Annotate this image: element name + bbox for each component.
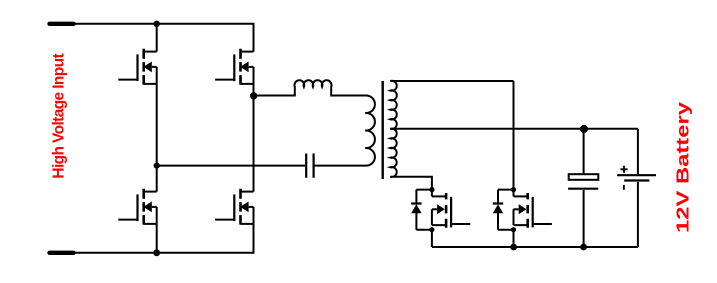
transformer T1 core [382, 81, 384, 179]
transformer T1 secondary upper winding [390, 81, 513, 129]
wire phase A to series capacitor [157, 165, 306, 167]
junction negative rail / C2 [580, 244, 587, 251]
svg-text:12V Battery: 12V Battery [674, 102, 693, 233]
transistor Q1 (upper-left) [118, 49, 156, 85]
junction phase A node [154, 163, 160, 169]
transistor Q2 (upper-right) [215, 49, 253, 85]
junction phase B node [250, 92, 257, 99]
junction bottom rail / Q3 source [153, 249, 160, 256]
capacitor C1 (series blocking) [306, 154, 313, 178]
wire D2 bottom to Q6 source [498, 230, 514, 247]
wire D2 top to Q6 drain [498, 190, 514, 197]
input terminal bottom [50, 251, 74, 255]
wire D1 top to Q5 drain [416, 190, 432, 197]
wire secondary top to Q6 drain [513, 81, 515, 190]
inductor L1 [254, 80, 366, 95]
junction Q6 drain / D2 [511, 187, 516, 192]
transformer T1 primary winding [314, 95, 375, 165]
diode D2 (body diode Q6) [493, 190, 503, 230]
battery BT1 [617, 129, 656, 247]
junction negative rail / Q6 [510, 244, 517, 251]
wire left leg Q1 source to phase A [156, 84, 158, 166]
wire left leg drain Q1 [156, 24, 158, 52]
junction positive rail / C2 [580, 125, 588, 133]
junction Q5 source / D1 [429, 227, 434, 232]
wire left leg phase A to Q3 drain [156, 166, 158, 192]
wire top rail [74, 24, 254, 52]
wire D1 bottom to Q5 source [416, 230, 432, 247]
junction Q6 source / D2 [511, 227, 516, 232]
svg-text:High Voltage Input: High Voltage Input [50, 54, 67, 179]
wire left leg Q3 source to bottom rail [156, 224, 158, 253]
wire right leg phase B to Q4 drain [253, 96, 255, 192]
capacitor C2 (output electrolytic) [568, 129, 598, 247]
input terminal top [50, 22, 74, 26]
diode D1 (body diode Q5) [411, 190, 421, 230]
junction Q5 drain / D1 [429, 187, 434, 192]
wire right leg Q2 source to phase B [253, 84, 255, 96]
battery minus mark [623, 185, 625, 190]
transformer T1 secondary lower winding [390, 129, 432, 190]
wire output negative rail [432, 246, 638, 248]
transistor Q6 (sync rectifier right) [514, 193, 552, 228]
junction top rail / Q1 drain [154, 21, 160, 27]
battery plus mark [620, 166, 627, 173]
transistor Q5 (sync rectifier left) [432, 193, 470, 228]
transistor Q4 (lower-right) [215, 189, 253, 225]
transistor Q3 (lower-left) [118, 189, 156, 225]
wire bottom rail [74, 224, 254, 253]
wire center tap to output positive [390, 128, 638, 130]
